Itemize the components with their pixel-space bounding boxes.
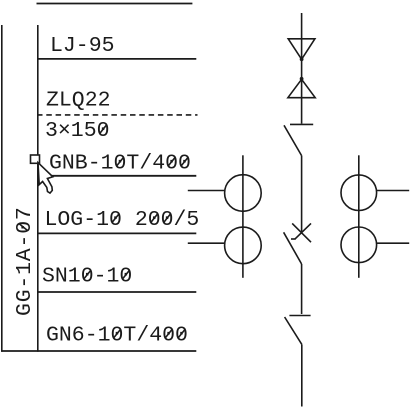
slashed zero of GG-1A-07 <box>19 224 27 230</box>
slashed zeros of SN10-10 <box>84 271 90 279</box>
wire: LOG row underline <box>37 232 196 234</box>
wire: QS1 to breaker <box>301 156 303 233</box>
circuit breaker QF contact X stroke 1 <box>292 223 311 242</box>
wire: incoming overhead line drop <box>301 13 303 124</box>
selection grip square <box>31 155 40 163</box>
current transformer CT2a <box>341 175 377 211</box>
wire: CT2b secondary lead <box>377 242 410 244</box>
svg-text:LJ-95: LJ-95 <box>50 34 115 58</box>
current transformer CT1a <box>225 175 262 212</box>
wire: left CT primary conductor <box>242 155 244 277</box>
circuit breaker QF latch tick <box>291 238 296 240</box>
svg-text:3×150: 3×150 <box>45 119 110 143</box>
label GG-1A-07 (rotated cabinet name) <box>13 206 37 316</box>
current transformer CT1b <box>225 227 262 264</box>
slashed zeros of GNB-10T/400 <box>117 158 123 166</box>
circuit breaker QF blade <box>284 232 302 264</box>
junction dot (up triangle apex) <box>300 77 304 81</box>
svg-text:LOG-10 200/5: LOG-10 200/5 <box>45 208 200 232</box>
mouse cursor arrow <box>38 163 53 194</box>
circuit breaker QF contact X stroke 2 <box>295 223 311 239</box>
wire: GNB row underline <box>37 175 196 177</box>
current transformer CT2b <box>341 227 377 263</box>
wire: cabinet bottom edge <box>1 350 196 352</box>
arrester gap: down triangle <box>288 39 315 60</box>
arrester gap: up triangle <box>288 79 315 97</box>
wire: cabinet left edge <box>1 25 3 352</box>
slashed zeros of LOG-10 200/5 <box>112 214 119 222</box>
svg-text:GG-1A-07: GG-1A-07 <box>13 206 37 316</box>
wire: SN row underline <box>37 291 196 293</box>
svg-text:SN10-10: SN10-10 <box>42 265 132 289</box>
slashed zeros of GN6-10T/400 <box>114 330 120 338</box>
disconnect switch QS2 blade <box>285 317 302 345</box>
wire: main feeder vertical line <box>37 25 39 352</box>
disconnect switch QS1 blade <box>284 125 302 155</box>
wire: top busbar stub <box>37 3 193 5</box>
wire: dashed cable run <box>37 114 198 116</box>
wire: LJ-95 row underline <box>37 58 196 60</box>
disconnect switch QS1 fixed contact bar <box>290 123 313 125</box>
wire: CT2a secondary lead <box>377 190 410 192</box>
wire: CT1b secondary lead <box>188 242 225 244</box>
junction dot (down triangle apex) <box>300 57 304 61</box>
wire: breaker to QS2 <box>301 264 303 314</box>
wire: CT1a secondary lead <box>188 190 225 192</box>
wire: outgoing line <box>301 345 303 407</box>
slashed zero of 3x150 <box>100 125 106 133</box>
svg-text:ZLQ22: ZLQ22 <box>46 89 111 113</box>
wire: right CT primary conductor <box>358 155 360 277</box>
disconnect switch QS2 fixed contact bar <box>289 315 310 317</box>
